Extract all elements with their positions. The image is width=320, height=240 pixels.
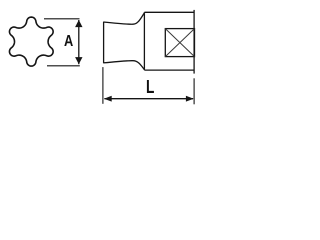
dimension line A (vertical, double arrow) <box>78 20 80 64</box>
extension line right of dim L <box>193 78 195 104</box>
neck bottom contour with flare <box>103 61 144 70</box>
label A <box>64 33 73 51</box>
right edge with overshoot <box>193 10 195 74</box>
neck top contour with flare <box>103 13 144 24</box>
socket side view: neck left edge <box>103 22 105 63</box>
arrowhead down <box>75 57 82 64</box>
arrowhead right <box>186 96 194 102</box>
label L <box>146 77 154 98</box>
square diagonals <box>165 29 194 57</box>
extension line bottom of dim A <box>47 65 80 67</box>
square drive <box>165 29 194 57</box>
arrowhead up <box>75 20 82 27</box>
torx star end view <box>9 17 53 66</box>
arrowhead left <box>104 96 112 102</box>
drive-end rectangle <box>144 12 194 70</box>
extension line left of dim L <box>102 67 104 104</box>
extension line top of dim A <box>44 18 80 20</box>
dimension line L (horizontal, double arrow) <box>104 98 193 100</box>
